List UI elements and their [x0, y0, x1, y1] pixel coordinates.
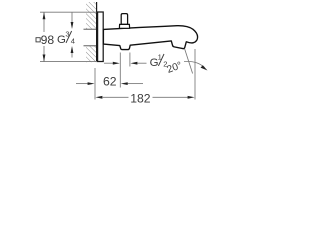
svg-text:20°: 20°	[166, 60, 184, 76]
wall hatched section lower	[86, 46, 97, 62]
arrow up sq98	[43, 12, 46, 19]
ext line spout tip (x=195)	[194, 49, 196, 100]
dim 182 line at y=97.3	[95, 96, 102, 99]
diverter knob base	[119, 24, 129, 28]
svg-text:98: 98	[41, 33, 55, 47]
pipe hole top line	[84, 28, 97, 30]
dim ext line bottom of flange (y=61.5)	[40, 61, 96, 63]
svg-text:182: 182	[130, 91, 151, 105]
label sq98	[36, 38, 40, 42]
20deg arc arrow	[184, 61, 205, 67]
wall face line	[96, 2, 98, 62]
diverter knob stem	[121, 14, 127, 25]
aerator direction line 20deg	[185, 49, 193, 74]
dim line sq98 vertical	[43, 12, 45, 32]
dim 62 arrows at y=83.5	[76, 83, 88, 85]
dim G3/4 vertical arrows	[71, 12, 73, 22]
pipe hole bottom line	[84, 45, 97, 47]
arrow down sq98	[43, 55, 46, 62]
spout body	[103, 26, 197, 50]
ext line outlet right (x=129.9)	[129, 53, 131, 67]
svg-text:62: 62	[103, 74, 117, 88]
svg-text:4: 4	[71, 36, 75, 45]
ext line wall face lower (x=95)	[94, 68, 96, 100]
escutcheon flange	[98, 12, 104, 62]
ext line outlet left (x=120.3)	[119, 53, 121, 88]
dim G1/2 arrows at y=63	[104, 62, 113, 64]
wall hatched section upper	[86, 2, 97, 29]
dim ext line top (y=12)	[40, 11, 97, 13]
